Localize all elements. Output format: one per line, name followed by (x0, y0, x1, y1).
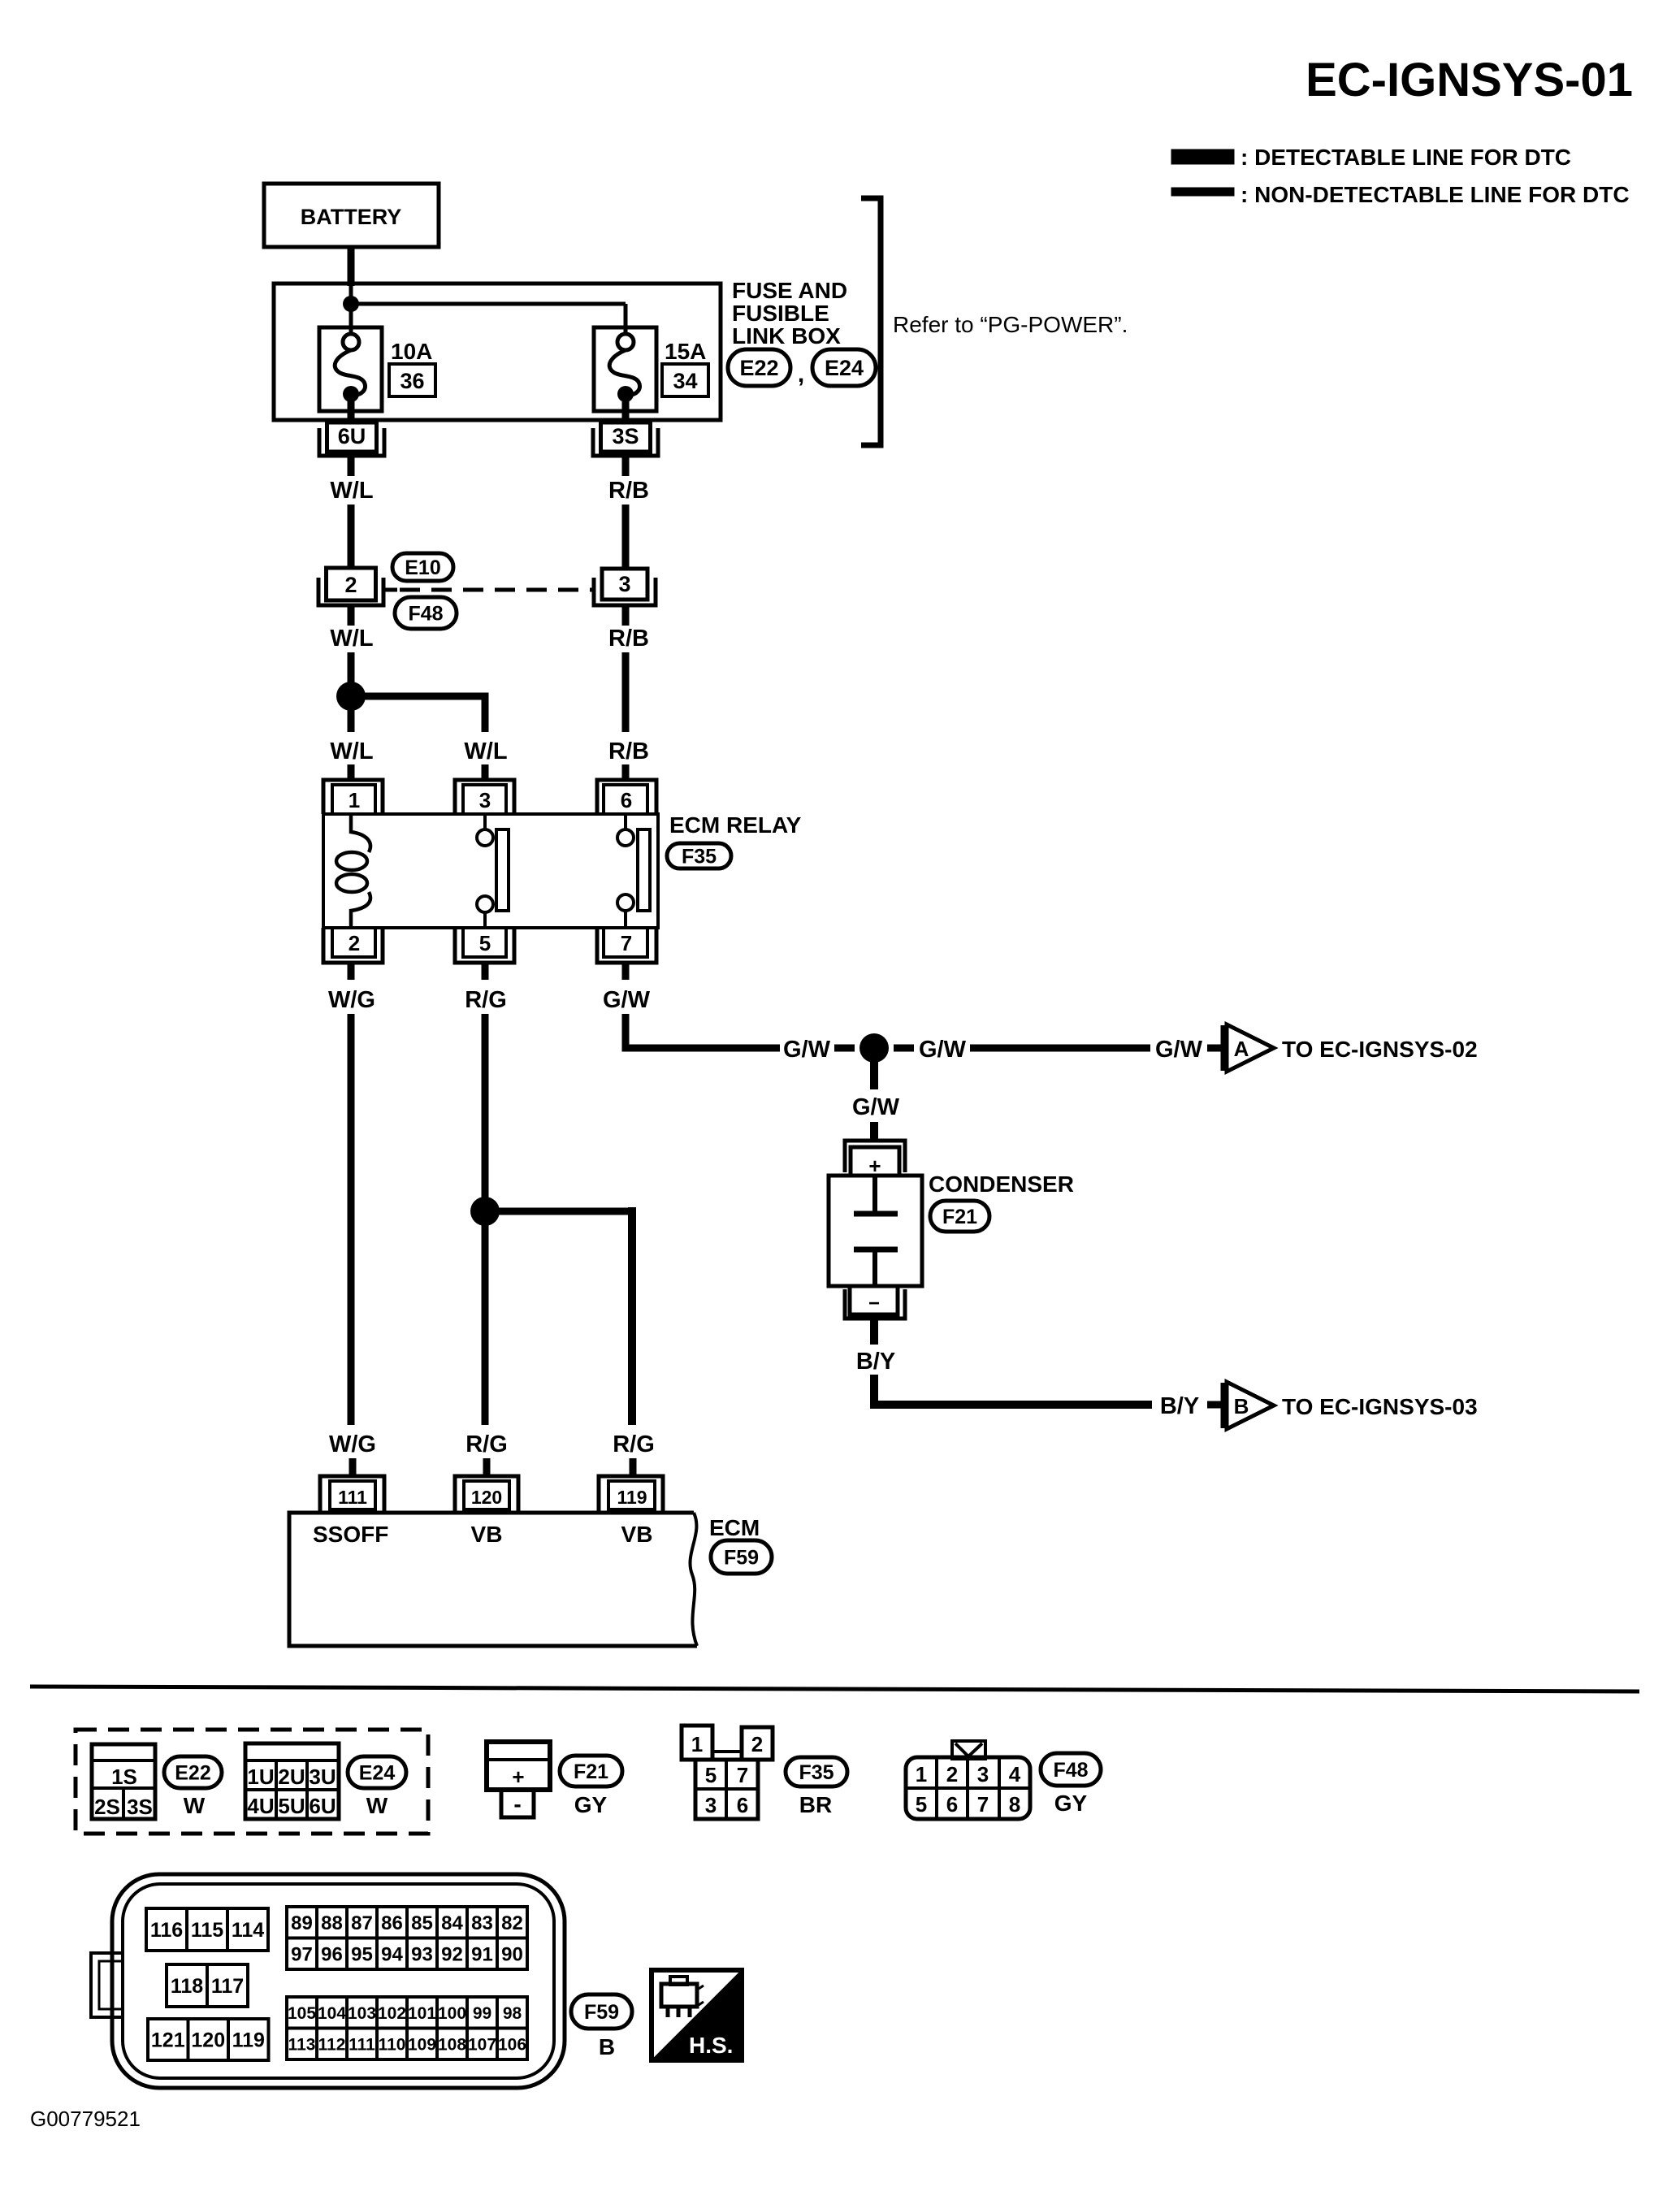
svg-text:R/B: R/B (608, 626, 649, 652)
svg-text:B: B (1234, 1394, 1249, 1418)
svg-text:R/B: R/B (608, 478, 649, 504)
connector ref F21 condenser (930, 1201, 989, 1232)
svg-text:7: 7 (737, 1763, 748, 1787)
svg-text:120: 120 (471, 1487, 502, 1508)
node junction in fuse box (343, 296, 359, 312)
svg-text:3S: 3S (127, 1795, 153, 1819)
svg-text:F48: F48 (1053, 1759, 1088, 1782)
ECM pins 89-82 97-90 (287, 1907, 527, 1969)
svg-text:EC-IGNSYS-01: EC-IGNSYS-01 (1305, 54, 1633, 106)
fuse F1 number box 36 (389, 364, 435, 396)
svg-text:111: 111 (338, 1487, 367, 1508)
wire segment to node (834, 1045, 855, 1052)
svg-text:TO EC-IGNSYS-03: TO EC-IGNSYS-03 (1282, 1394, 1478, 1419)
wire branch to ECM 119 (630, 1458, 637, 1476)
connector view E24 cavity block (245, 1743, 339, 1819)
svg-text:91: 91 (471, 1943, 493, 1965)
svg-text:2: 2 (751, 1732, 763, 1756)
wire W/G to ECM 111 (349, 1458, 357, 1476)
connector ref E22 (728, 349, 790, 386)
svg-text:F59: F59 (724, 1547, 759, 1570)
ECM pins 116 115 114 (146, 1908, 268, 1951)
svg-text:1: 1 (349, 788, 360, 812)
svg-text:G/W: G/W (603, 987, 651, 1013)
connector ref F35 relay (667, 843, 731, 868)
svg-text:114: 114 (232, 1919, 264, 1942)
svg-text:G/W: G/W (783, 1037, 831, 1063)
connector ref F48 inline (395, 597, 457, 629)
ECM relay K1 body (323, 814, 658, 928)
svg-text:108: 108 (438, 2035, 466, 2054)
svg-text:W/L: W/L (464, 738, 507, 764)
svg-text:-: - (513, 1791, 521, 1817)
svg-text:3S: 3S (612, 424, 639, 448)
svg-text:VB: VB (471, 1522, 503, 1547)
wire W/G long run (348, 1014, 355, 1425)
relay contact pins 3-5 (483, 814, 487, 829)
svg-text:94: 94 (381, 1943, 403, 1965)
connector ref F21 view (560, 1756, 622, 1786)
svg-text:: NON-DETECTABLE LINE FOR DTC: : NON-DETECTABLE LINE FOR DTC (1241, 182, 1630, 207)
H.S. logo connector icon (661, 1984, 697, 2007)
svg-text:VB: VB (621, 1522, 653, 1547)
wire G/W corner to horizontal run (626, 1014, 780, 1048)
svg-text:98: 98 (503, 2004, 522, 2023)
arrow B to EC-IGNSYS-03 (1221, 1383, 1227, 1428)
ECM box (289, 1513, 697, 1646)
relay pin 2 terminal (332, 928, 375, 957)
svg-text:W/L: W/L (330, 738, 373, 764)
dashed group box E22 E24 (76, 1730, 428, 1834)
wire R/G to ECM 120 (483, 1458, 491, 1476)
svg-text:FUSE AND: FUSE AND (732, 278, 847, 303)
svg-text:111: 111 (349, 2035, 375, 2054)
wire to connector E10-F48 pin 2 (348, 505, 355, 569)
svg-text:4U: 4U (247, 1794, 274, 1818)
svg-text:15A: 15A (665, 339, 706, 364)
ECM connector left key tab (91, 1953, 123, 2017)
svg-text:B: B (599, 2034, 615, 2059)
wire branch R/G junction right (485, 1208, 632, 1215)
connector view F21 block (487, 1742, 550, 1790)
svg-text:W: W (366, 1793, 388, 1818)
svg-text:E10: E10 (405, 556, 440, 579)
svg-text:H.S.: H.S. (689, 2033, 733, 2058)
svg-text:118: 118 (171, 1975, 203, 1998)
svg-text:82: 82 (501, 1912, 523, 1934)
connector view F48 block (952, 1741, 985, 1759)
svg-text:34: 34 (673, 369, 697, 393)
ECM pins 118 117 (167, 1964, 248, 2007)
svg-text:3U: 3U (309, 1765, 336, 1789)
svg-text:119: 119 (617, 1487, 647, 1508)
bracket refer note (861, 198, 881, 445)
svg-text:E24: E24 (359, 1762, 396, 1785)
svg-text:3: 3 (479, 788, 491, 812)
svg-text:W/L: W/L (330, 626, 373, 652)
svg-text:97: 97 (291, 1943, 313, 1965)
legend detectable line sample (1171, 149, 1234, 164)
relay coil pins 1-2 (351, 814, 370, 852)
fuse F2 15A body (594, 327, 656, 411)
legend non-detectable line sample (1171, 188, 1234, 196)
relay pin 6 terminal (604, 785, 647, 814)
connector ref E24 (812, 349, 876, 386)
svg-text:3: 3 (977, 1762, 989, 1786)
svg-text:: DETECTABLE LINE FOR DTC: : DETECTABLE LINE FOR DTC (1241, 145, 1571, 170)
svg-text:113: 113 (288, 2035, 316, 2054)
svg-text:1: 1 (691, 1732, 703, 1756)
terminal 6U (327, 422, 377, 452)
svg-text:121: 121 (151, 2029, 185, 2052)
svg-text:R/B: R/B (608, 738, 649, 764)
wire node down to condenser (870, 1048, 878, 1089)
svg-text:F35: F35 (799, 1761, 834, 1784)
wire 3S down (622, 456, 630, 476)
node R/G junction (470, 1197, 500, 1226)
svg-text:103: 103 (348, 2004, 376, 2023)
svg-text:84: 84 (441, 1912, 463, 1934)
svg-text:W/G: W/G (328, 987, 375, 1013)
connector ref F35 view (786, 1757, 847, 1786)
svg-text:10A: 10A (391, 339, 432, 364)
wire long run to arrow A (970, 1045, 1150, 1052)
svg-text:E22: E22 (175, 1762, 210, 1785)
connector ref F59 ECM (711, 1540, 772, 1574)
svg-text:B/Y: B/Y (856, 1349, 895, 1375)
wire branch junction to relay pin 3 (351, 693, 485, 700)
ECM terminal 111 (330, 1481, 375, 1509)
node W/L junction (336, 682, 366, 711)
svg-text:F35: F35 (682, 846, 717, 868)
svg-text:FUSIBLE: FUSIBLE (732, 301, 829, 326)
svg-text:104: 104 (318, 2004, 346, 2023)
svg-text:83: 83 (471, 1912, 493, 1934)
wire fuse F2 to terminal 3S (622, 394, 630, 424)
svg-text:101: 101 (408, 2004, 436, 2023)
svg-text:GY: GY (1054, 1791, 1088, 1816)
svg-text:ECM: ECM (709, 1515, 760, 1540)
svg-text:96: 96 (321, 1943, 343, 1965)
wire 6U down (348, 456, 355, 476)
svg-text:F21: F21 (574, 1760, 608, 1783)
svg-text:2: 2 (349, 931, 360, 955)
wire segment after node (894, 1045, 914, 1052)
wire to connector pin 3 (622, 505, 630, 569)
svg-text:R/G: R/G (465, 1431, 508, 1457)
svg-text:BATTERY: BATTERY (301, 205, 402, 229)
svg-text:2S: 2S (94, 1795, 120, 1819)
svg-text:1S: 1S (111, 1765, 137, 1789)
connector pin 3 of E10-F48 (602, 569, 647, 600)
svg-text:109: 109 (408, 2035, 436, 2054)
svg-text:6: 6 (946, 1792, 958, 1817)
wire B/Y corner to arrow B (874, 1375, 1152, 1405)
wire pin2 down (348, 963, 355, 980)
svg-text:100: 100 (438, 2004, 466, 2023)
connector ref F59 view (571, 1994, 632, 2029)
wire junction down (348, 696, 355, 732)
svg-text:R/G: R/G (613, 1431, 655, 1457)
svg-text:CONDENSER: CONDENSER (929, 1171, 1074, 1197)
svg-text:116: 116 (150, 1919, 183, 1942)
svg-text:102: 102 (378, 2004, 406, 2023)
svg-text:115: 115 (191, 1919, 223, 1942)
wire junction to fuse F1 (349, 286, 353, 334)
tick to dashed link (383, 588, 397, 592)
wire R/G junction down (482, 1211, 489, 1425)
svg-text:G/W: G/W (852, 1094, 900, 1120)
wire to relay pin 6 (622, 764, 630, 780)
svg-text:ECM RELAY: ECM RELAY (669, 812, 802, 838)
svg-text:−: − (868, 1293, 880, 1314)
svg-text:8: 8 (1009, 1792, 1020, 1817)
svg-text:90: 90 (501, 1943, 523, 1965)
svg-text:G/W: G/W (1155, 1037, 1203, 1063)
svg-text:,: , (798, 361, 804, 388)
svg-text:6: 6 (621, 788, 632, 812)
svg-text:92: 92 (441, 1943, 463, 1965)
svg-text:99: 99 (473, 2004, 491, 2023)
svg-text:2U: 2U (278, 1765, 305, 1789)
svg-text:E24: E24 (825, 356, 864, 380)
svg-text:2: 2 (946, 1762, 958, 1786)
svg-text:G/W: G/W (919, 1037, 967, 1063)
svg-text:2: 2 (344, 573, 357, 597)
svg-text:117: 117 (211, 1975, 244, 1998)
svg-text:W/L: W/L (330, 478, 373, 504)
svg-text:5: 5 (916, 1792, 927, 1817)
connector ref F48 view (1041, 1753, 1101, 1786)
svg-text:120: 120 (191, 2029, 225, 2052)
svg-text:Refer to “PG-POWER”.: Refer to “PG-POWER”. (893, 312, 1128, 337)
svg-text:88: 88 (321, 1912, 343, 1934)
svg-text:4: 4 (1009, 1762, 1021, 1786)
separator line (30, 1687, 1639, 1691)
wire branch down to ECM 119 (628, 1207, 636, 1425)
H.S. inspection logo (652, 1970, 742, 2060)
svg-text:93: 93 (411, 1943, 433, 1965)
svg-text:W/G: W/G (329, 1431, 376, 1457)
wire branch to relay pin 3 (482, 764, 489, 780)
wire pin2 to junction (348, 605, 355, 626)
svg-text:87: 87 (351, 1912, 373, 1934)
fuse F1 element (343, 334, 359, 350)
svg-text:B/Y: B/Y (1160, 1393, 1199, 1419)
svg-text:TO EC-IGNSYS-02: TO EC-IGNSYS-02 (1282, 1037, 1478, 1062)
svg-text:86: 86 (381, 1912, 403, 1934)
wire to condenser + (870, 1122, 878, 1141)
svg-text:W: W (184, 1793, 206, 1818)
svg-text:F48: F48 (408, 603, 443, 626)
svg-text:6: 6 (737, 1793, 748, 1817)
terminal 3S (601, 422, 651, 452)
svg-text:6U: 6U (338, 424, 366, 448)
svg-text:3: 3 (705, 1793, 717, 1817)
svg-text:+: + (512, 1765, 524, 1789)
relay contact pins 6-7 (624, 814, 627, 829)
ECM terminal 120 (464, 1481, 509, 1509)
svg-text:105: 105 (288, 2004, 316, 2023)
svg-text:F21: F21 (942, 1206, 977, 1228)
svg-text:5U: 5U (278, 1794, 305, 1818)
battery B1 (264, 184, 439, 247)
relay pin 7 terminal (604, 928, 647, 957)
svg-text:3: 3 (618, 572, 630, 596)
condenser element (872, 1176, 877, 1211)
svg-text:119: 119 (232, 2029, 265, 2052)
ECM pins 105-98 113-106 (287, 1997, 527, 2059)
ECM terminal 119 (608, 1481, 655, 1509)
wire battery to fuse box (348, 247, 355, 286)
wire condenser minus down (870, 1319, 878, 1345)
svg-text:E22: E22 (739, 356, 778, 380)
fuse and fusible link box outline (274, 284, 721, 420)
svg-text:36: 36 (400, 369, 424, 393)
wire fuse F1 to terminal 6U (348, 394, 355, 424)
connector pin 2 of E10-F48 (327, 568, 376, 600)
svg-text:107: 107 (468, 2035, 496, 2054)
svg-text:95: 95 (351, 1943, 373, 1965)
wire to relay pin 1 (348, 764, 355, 780)
svg-text:106: 106 (498, 2035, 526, 2054)
connector ref E24 view (348, 1756, 406, 1788)
svg-text:BR: BR (799, 1792, 832, 1817)
relay pin 1 terminal (332, 785, 375, 814)
svg-text:7: 7 (977, 1792, 989, 1817)
svg-text:SSOFF: SSOFF (313, 1522, 388, 1547)
wire pin5 down (482, 963, 489, 980)
svg-text:5: 5 (479, 931, 491, 955)
svg-text:6U: 6U (309, 1794, 336, 1818)
svg-text:A: A (1234, 1037, 1249, 1061)
svg-text:F59: F59 (584, 2001, 619, 2024)
connector ref E22 view (164, 1756, 222, 1788)
wire pin7 down (622, 963, 630, 980)
connector ref E10 (392, 553, 453, 581)
svg-text:G00779521: G00779521 (30, 2107, 141, 2131)
relay pin 5 terminal (463, 928, 506, 957)
svg-text:1U: 1U (247, 1765, 274, 1789)
condenser terminal minus (850, 1286, 898, 1314)
condenser terminal plus (845, 1141, 905, 1172)
connector view E22 cavity block (92, 1744, 155, 1819)
svg-text:112: 112 (318, 2035, 346, 2054)
connector view F35 block (682, 1726, 712, 1760)
wire junction to fuse F2 (351, 302, 626, 306)
wire R/G to junction (482, 1014, 489, 1198)
svg-text:89: 89 (291, 1912, 313, 1934)
fuse F2 number box 34 (662, 364, 708, 396)
svg-text:R/G: R/G (465, 987, 507, 1013)
svg-text:1: 1 (916, 1762, 927, 1786)
svg-text:7: 7 (621, 931, 632, 955)
relay pin 3 terminal (463, 785, 506, 814)
node G/W junction (859, 1033, 889, 1063)
ECM connector F59 housing (112, 1874, 565, 2088)
fuse F2 element (617, 334, 634, 350)
svg-text:GY: GY (574, 1792, 608, 1817)
dashed connector link line (400, 588, 594, 592)
svg-text:110: 110 (379, 2035, 406, 2054)
svg-text:LINK BOX: LINK BOX (732, 323, 841, 349)
ECM pins 121 120 119 (148, 2019, 269, 2060)
wire pin3 down (622, 605, 630, 626)
svg-text:85: 85 (411, 1912, 433, 1934)
arrow A to EC-IGNSYS-02 (1221, 1025, 1227, 1071)
svg-text:5: 5 (705, 1763, 717, 1787)
condenser C1 body (829, 1176, 922, 1286)
fuse F1 10A body (319, 327, 382, 411)
